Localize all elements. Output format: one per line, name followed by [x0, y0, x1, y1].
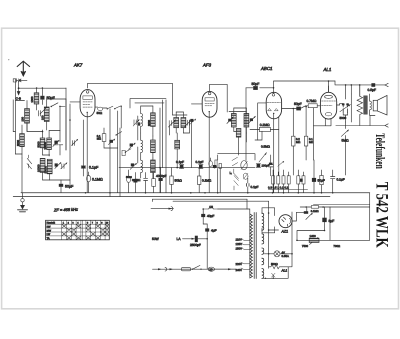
power transformer — [250, 213, 264, 279]
wave switch table — [46, 220, 110, 240]
svg-text:240V: 240V — [236, 268, 243, 272]
wire 246 column — [245, 108, 247, 161]
svg-text:C-B: C-B — [16, 97, 21, 101]
cap 100pF on rail — [257, 164, 261, 167]
coil value labels — [17, 96, 151, 173]
svg-text:MΩ: MΩ — [97, 138, 101, 141]
wire AF3 top — [210, 84, 228, 112]
rail x160 — [160, 100, 163, 193]
svg-text:TA: TA — [47, 237, 50, 240]
junction dots on bus — [85, 192, 334, 194]
main ground bus — [21, 192, 370, 194]
svg-text:0.3 0.5 1 0.1 0.2: 0.3 0.5 1 0.1 0.2 — [268, 186, 289, 190]
small rect on rail — [219, 163, 221, 168]
wire earth lead — [18, 81, 20, 93]
tube AF3 — [202, 84, 217, 117]
rectifier tube AZ1 — [279, 215, 292, 228]
svg-text:7500: 7500 — [302, 244, 309, 248]
IFT1 trimmer right — [185, 119, 192, 126]
svg-text:LW: LW — [47, 233, 51, 236]
svg-text:40µF: 40µF — [207, 214, 214, 218]
mains switch — [193, 265, 201, 269]
resistor 0.2Mohm diode load — [259, 127, 270, 131]
svg-text:30Ω: 30Ω — [97, 111, 103, 115]
cap 0.5uF output — [371, 83, 375, 87]
pot circle — [241, 161, 247, 170]
IFT2 trimmer left — [228, 119, 231, 122]
svg-text:700Ω: 700Ω — [333, 244, 340, 248]
resistor bank mid right — [292, 136, 295, 146]
resistor 5000 bottom — [269, 265, 282, 269]
field coil — [309, 238, 319, 242]
bus L-drop right — [369, 193, 371, 207]
svg-text:0.1µF: 0.1µF — [89, 166, 99, 170]
svg-text:0.1µF: 0.1µF — [196, 160, 204, 164]
cathode oval + resistor AF3 — [209, 161, 213, 167]
coil 10000 B2 — [47, 138, 52, 150]
svg-text:ABC1: ABC1 — [260, 66, 273, 71]
cap 4uF — [205, 228, 209, 231]
box bottom bus — [13, 196, 330, 198]
wire ABC1 grid left — [258, 103, 267, 140]
svg-text:50kΩ: 50kΩ — [175, 179, 183, 183]
svg-text:50µF: 50µF — [47, 96, 56, 100]
cap 8uF — [322, 218, 326, 222]
IF transformer 2 — [229, 108, 249, 137]
pilot lamp bump 10 — [203, 207, 218, 209]
coil 5000 A — [20, 134, 25, 147]
svg-text:0.7MΩ: 0.7MΩ — [307, 99, 317, 103]
svg-text:Telefunken: Telefunken — [373, 133, 388, 169]
switch contact osc1 — [116, 132, 122, 135]
osc verticals — [118, 111, 138, 193]
box right edge — [130, 99, 166, 193]
svg-text:100: 100 — [41, 115, 44, 120]
svg-text:110V: 110V — [236, 238, 242, 242]
coil antenna input — [36, 88, 38, 93]
cap 50uF bottom of box — [59, 184, 63, 187]
svg-text:2500pF: 2500pF — [190, 243, 201, 247]
bottom return wire — [262, 267, 288, 279]
svg-text:Kontakt: Kontakt — [47, 222, 56, 225]
svg-text:5000: 5000 — [37, 141, 40, 147]
trimmer arrow a — [40, 108, 46, 114]
svg-text:0.1MΩ: 0.1MΩ — [92, 178, 103, 182]
osc coil pair 3 — [141, 160, 143, 172]
trimmer 3 lower — [55, 163, 61, 169]
rotated brand text — [372, 133, 392, 248]
coil 100 mid — [44, 107, 49, 122]
svg-text:100: 100 — [22, 117, 25, 122]
switch bank mid — [234, 174, 239, 186]
coil 5000 B — [40, 138, 45, 148]
cap blob in bank — [300, 179, 303, 182]
wire antenna to grid row — [19, 87, 66, 89]
pot 5Mohm — [341, 130, 348, 137]
svg-text:AF3: AF3 — [202, 63, 212, 68]
padder trimmer 1 — [54, 144, 63, 146]
cathode resistor 30ohm oval — [95, 106, 98, 108]
svg-text:50µF: 50µF — [65, 185, 74, 189]
mid rail AVC — [119, 167, 255, 169]
switch contacts AK7 cathode — [107, 106, 120, 109]
padder cap + arrow — [109, 140, 113, 143]
bank bottom tie — [268, 188, 307, 190]
vertical rails under AK7 — [110, 106, 121, 196]
cap 50uF ABC1 — [246, 87, 274, 89]
svg-text:10000: 10000 — [44, 166, 47, 174]
antenna — [17, 61, 29, 76]
svg-text:MW: MW — [47, 229, 52, 232]
svg-text:0.1µF: 0.1µF — [251, 185, 259, 189]
osc coil pair 1 — [141, 114, 143, 127]
svg-text:500Ω: 500Ω — [271, 262, 278, 266]
coil 100 left — [25, 109, 30, 124]
cap 0.1uF detector — [269, 165, 273, 167]
wire ABC1 pins — [274, 114, 279, 192]
trimmer osc mid + cap — [130, 144, 133, 147]
HT resistor 0.1M — [311, 206, 318, 209]
svg-text:10000: 10000 — [44, 142, 47, 150]
svg-text:150V: 150V — [236, 247, 243, 251]
svg-text:MΩ: MΩ — [296, 141, 300, 144]
wire AK7 left grid — [70, 101, 80, 103]
osc coil pair 2 — [141, 140, 143, 152]
tube AL1 — [320, 86, 336, 119]
transformer taps — [241, 239, 250, 270]
resistor right of bank — [320, 175, 323, 184]
resistor 0.1M ohm vertical oval — [87, 175, 91, 181]
svg-text:100pF: 100pF — [262, 164, 270, 168]
svg-text:0.1µF: 0.1µF — [337, 178, 345, 182]
svg-text:1400: 1400 — [310, 234, 317, 238]
svg-text:50: 50 — [138, 122, 141, 125]
trimmer 2 — [72, 139, 78, 145]
dial lamp — [274, 251, 280, 257]
svg-text:50µF: 50µF — [318, 179, 325, 183]
IFT1 trimmer left — [169, 120, 176, 127]
antenna terminal node — [13, 79, 16, 82]
output transformer winding — [364, 96, 368, 114]
trimmer osc low + cap — [131, 163, 134, 166]
cap 50pF coupling — [296, 107, 301, 111]
svg-text:AZ1: AZ1 — [281, 230, 289, 234]
wire AK7 anode top bus — [88, 83, 173, 115]
fuse — [182, 268, 191, 271]
svg-text:0.55A: 0.55A — [282, 254, 289, 258]
left box wires — [15, 79, 24, 154]
left block bottom wires — [15, 154, 22, 193]
svg-text:KW: KW — [47, 225, 52, 228]
pot oval lower — [243, 173, 248, 179]
svg-text:AK7: AK7 — [73, 63, 83, 68]
capacitor 50uF antenna — [41, 88, 43, 105]
trimmer cap AF3 grid — [190, 119, 193, 122]
field coil arrow — [310, 238, 319, 245]
resistor 0.7Mohm grid leak — [308, 104, 317, 108]
lamp oval 10 — [208, 267, 214, 271]
wire AF3 pin — [208, 112, 210, 192]
dial cord arrow — [151, 208, 174, 210]
bottom speaker line + terminal — [336, 125, 385, 127]
cap 50uF right bank — [312, 178, 316, 182]
cap 4000pF — [159, 178, 163, 181]
speaker field coil resistor — [357, 96, 363, 114]
switch rail — [218, 154, 255, 160]
ground symbol — [21, 199, 24, 202]
top bus right + terminal — [385, 83, 388, 86]
svg-text:4µF: 4µF — [211, 229, 217, 233]
svg-text:ZF = 468 kHz: ZF = 468 kHz — [53, 207, 78, 213]
svg-text:50µF: 50µF — [252, 82, 260, 86]
svg-text:1000: 1000 — [31, 96, 34, 102]
cap 5000 mid — [247, 184, 250, 187]
svg-text:T 542 WLK: T 542 WLK — [372, 182, 392, 248]
primary top jog — [247, 209, 250, 214]
svg-text:0.1µF: 0.1µF — [176, 160, 184, 164]
coil lower pair — [40, 158, 45, 172]
svg-text:50pF: 50pF — [294, 102, 302, 106]
wire AF3 grid left — [191, 103, 202, 105]
svg-text:10: 10 — [209, 267, 213, 271]
IF transformer 1 — [173, 112, 188, 133]
switch wave contacts left — [27, 158, 32, 169]
tone caps + trimmer — [337, 104, 340, 105]
cap 40uF — [201, 214, 205, 217]
heater rail wires — [153, 199, 269, 201]
switch contact a — [52, 103, 66, 107]
svg-text:AL1: AL1 — [323, 67, 332, 72]
trimmer 4 lower — [61, 163, 67, 169]
speaker voice coil — [370, 101, 372, 110]
svg-text:MΩ: MΩ — [309, 141, 313, 144]
trimmer arrow mid-right — [278, 161, 284, 166]
svg-text:0.1MΩ: 0.1MΩ — [311, 210, 319, 213]
svg-text:0.5µF: 0.5µF — [368, 88, 377, 92]
switch contact osc2 — [125, 149, 131, 152]
svg-text:10: 10 — [209, 205, 213, 209]
resistor 0.1M osc grid — [102, 134, 106, 142]
wire ABC1 anode right — [282, 108, 297, 110]
svg-text:125V: 125V — [236, 242, 243, 246]
IFT1 secondary coil — [175, 140, 180, 149]
svg-text:AL1: AL1 — [281, 269, 288, 273]
svg-text:10000: 10000 — [37, 164, 40, 172]
top HT bus — [274, 81, 336, 92]
svg-text:4000pF: 4000pF — [156, 174, 167, 178]
AL1 pins down — [313, 108, 331, 160]
small rect contact block — [122, 150, 125, 155]
mid resistors row — [170, 176, 173, 185]
switch contacts upper pair — [232, 157, 238, 166]
tube AK7 — [80, 83, 95, 116]
trimmer osc top — [133, 120, 139, 127]
svg-text:5000: 5000 — [17, 140, 20, 146]
svg-text:220V: 220V — [236, 262, 243, 266]
caps 0.1uF on mid rail — [180, 165, 184, 168]
svg-text:0.1MΩ: 0.1MΩ — [202, 179, 212, 183]
tube ABC1 — [266, 88, 281, 119]
AZ1 wires — [268, 201, 270, 268]
svg-text:50W: 50W — [152, 237, 160, 241]
IFT2 trimmer right — [250, 118, 253, 121]
cap far right bank — [331, 177, 335, 179]
resistor oval 0.1M osc — [127, 176, 131, 182]
wire AK7 pin down — [86, 113, 88, 193]
svg-text:8µF: 8µF — [329, 219, 335, 223]
cap 0.1uF in box — [81, 166, 85, 168]
svg-text:5000: 5000 — [126, 176, 132, 179]
mains line — [153, 268, 237, 270]
svg-text:0.5MΩ: 0.5MΩ — [261, 145, 271, 149]
junction dots rails — [159, 80, 360, 254]
bottom caps row in box — [133, 179, 137, 183]
speaker — [373, 100, 377, 111]
arrow pot HT — [306, 213, 312, 219]
resistor bank bottom (6) — [272, 176, 305, 184]
middle column of box — [69, 104, 71, 185]
speck — [8, 59, 9, 60]
svg-text:0.2MΩ: 0.2MΩ — [260, 123, 270, 127]
